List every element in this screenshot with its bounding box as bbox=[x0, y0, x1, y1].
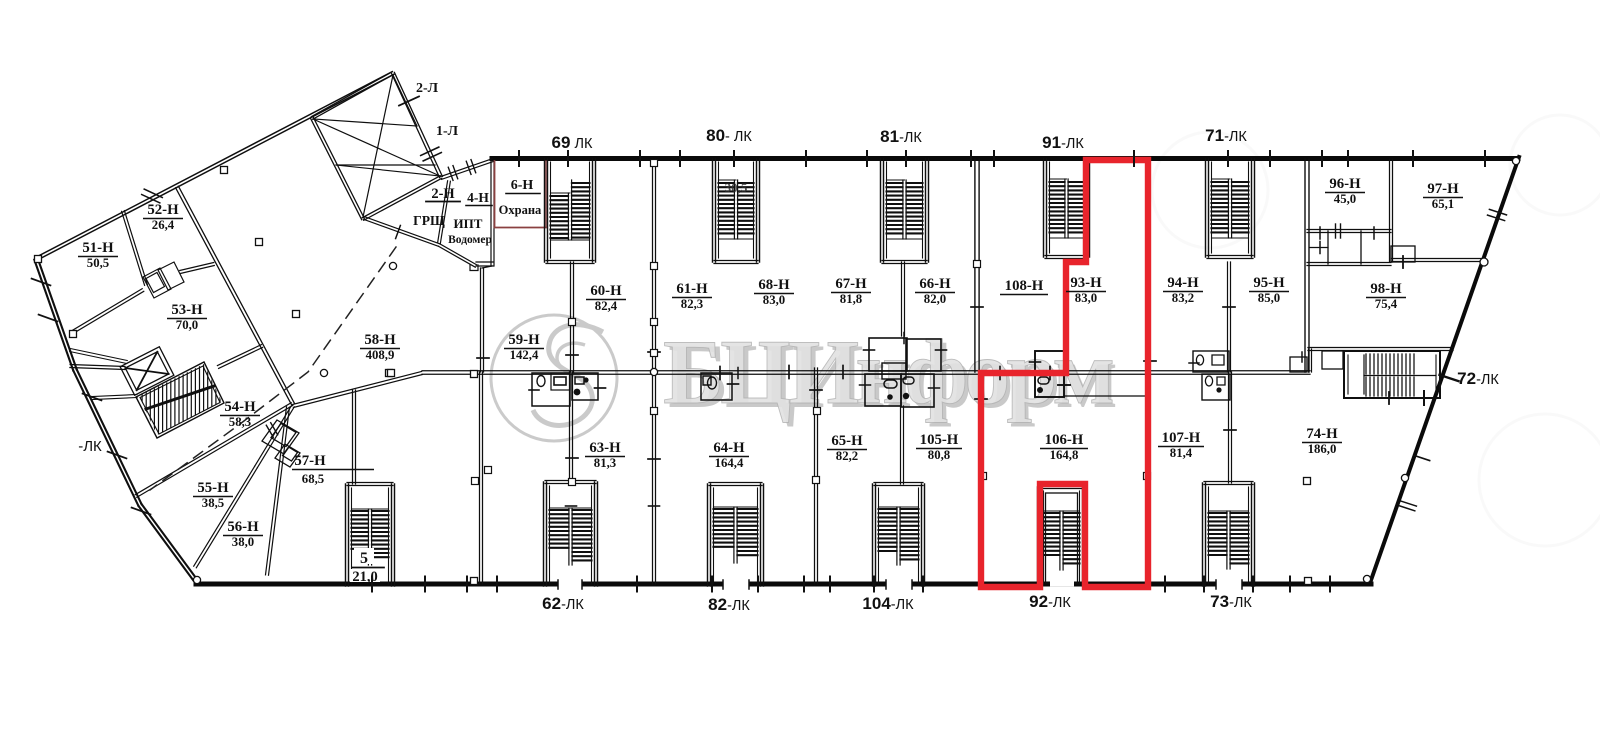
svg-text:52-Н: 52-Н bbox=[147, 202, 179, 218]
svg-text:68-Н: 68-Н bbox=[758, 277, 790, 293]
svg-text:ИПТ: ИПТ bbox=[454, 216, 483, 231]
svg-text:408,9: 408,9 bbox=[366, 348, 395, 362]
stair block 92-ЛК bbox=[1038, 487, 1041, 586]
wall between 51-Н 52-Н and 53-Н bbox=[70, 289, 144, 335]
walls connecting -ЛК cluster bbox=[70, 349, 128, 364]
svg-text:82-ЛК: 82-ЛК bbox=[708, 595, 750, 614]
stair 5 block bbox=[346, 484, 349, 586]
wall between 64-Н and 65-Н bbox=[815, 368, 818, 584]
wall between 56-Н and 57-Н bbox=[266, 407, 290, 575]
svg-text:186,0: 186,0 bbox=[1308, 442, 1337, 456]
toilet block for 107-Н bbox=[1202, 374, 1230, 400]
svg-text:67-Н: 67-Н bbox=[835, 276, 867, 292]
square tabs on walls bbox=[651, 160, 658, 167]
svg-text:58-Н: 58-Н bbox=[364, 332, 396, 348]
svg-text:70,0: 70,0 bbox=[176, 318, 198, 332]
room labels bbox=[78, 176, 1463, 549]
svg-text:164,8: 164,8 bbox=[1050, 448, 1079, 462]
ГРЩ room walls bbox=[441, 159, 494, 180]
toilet cluster for 65-Н 66-Н 67-Н bbox=[869, 338, 907, 371]
svg-text:97-Н: 97-Н bbox=[1427, 181, 1459, 197]
svg-text:81,4: 81,4 bbox=[1170, 446, 1193, 460]
ramp tick 2-Л bbox=[399, 96, 419, 105]
svg-text:2-Н: 2-Н bbox=[431, 186, 455, 202]
svg-text:82,2: 82,2 bbox=[836, 449, 858, 463]
svg-text:68,5: 68,5 bbox=[302, 472, 324, 486]
svg-text:164,4: 164,4 bbox=[715, 456, 744, 470]
svg-text:Водомер: Водомер bbox=[448, 234, 492, 246]
svg-text:51-Н: 51-Н bbox=[82, 240, 114, 256]
svg-text:66-Н: 66-Н bbox=[919, 276, 951, 292]
wall between 54-Н and 55-Н bbox=[135, 403, 293, 498]
96-Н east wall bbox=[1390, 159, 1393, 262]
toilet block for 95-Н bbox=[1290, 357, 1307, 372]
stair block 91-ЛК bbox=[1044, 159, 1047, 257]
stair block 80-ЛК bbox=[713, 159, 716, 262]
watermark circle and text БЦИнформ bbox=[491, 315, 617, 441]
svg-text:74-Н: 74-Н bbox=[1306, 426, 1338, 442]
ticks on top wall bbox=[518, 151, 520, 166]
svg-text:94-Н: 94-Н bbox=[1167, 275, 1199, 291]
toilet block for 64-Н bbox=[701, 373, 732, 400]
svg-text:80,8: 80,8 bbox=[928, 448, 950, 462]
svg-text:71-ЛК: 71-ЛК bbox=[1205, 126, 1247, 145]
ramp tick 1-Л bbox=[423, 153, 441, 161]
98-Н south wall bbox=[1308, 348, 1453, 351]
wall between 105-Н and 106-Н under red line bbox=[980, 373, 982, 584]
Охрана room walls 6-Н bbox=[495, 161, 547, 228]
left wing northwest exterior wall bbox=[35, 72, 393, 261]
svg-text:4-Н: 4-Н bbox=[467, 190, 489, 205]
svg-text:82,4: 82,4 bbox=[595, 299, 618, 313]
svg-text:57-Н: 57-Н bbox=[294, 453, 326, 469]
wall between 107-Н and 74-Н bbox=[1229, 372, 1232, 483]
svg-text:72-ЛК: 72-ЛК bbox=[1457, 369, 1499, 388]
svg-text:2-Л: 2-Л bbox=[416, 81, 439, 96]
svg-text:81,3: 81,3 bbox=[594, 456, 616, 470]
label 5 and area 21,0 bbox=[354, 548, 374, 564]
96-Н south wall and cells bbox=[1307, 230, 1391, 233]
svg-text:104-ЛК: 104-ЛК bbox=[862, 594, 914, 613]
svg-text:-ЛК: -ЛК bbox=[78, 438, 102, 455]
svg-text:83,2: 83,2 bbox=[1172, 291, 1194, 305]
door gaps in bottom wall at stair entrances bbox=[558, 581, 582, 587]
svg-text:60-Н: 60-Н bbox=[590, 283, 622, 299]
left wing west exterior wall bbox=[34, 258, 76, 370]
svg-text:21,0: 21,0 bbox=[352, 569, 377, 585]
svg-text:95-Н: 95-Н bbox=[1253, 275, 1285, 291]
wall between 53-Н and 54-Н bbox=[70, 365, 125, 370]
svg-text:26,4: 26,4 bbox=[152, 218, 175, 232]
stair block 81-ЛК bbox=[881, 159, 884, 262]
ГРЩ / ИПТ divider wall bbox=[438, 181, 451, 243]
external ramp structure with cross bracing bbox=[392, 72, 443, 177]
red highlighted suite outline 93-Н 106-Н 92-ЛК bbox=[981, 160, 1148, 587]
svg-text:83,0: 83,0 bbox=[1075, 291, 1097, 305]
svg-text:38,0: 38,0 bbox=[232, 535, 254, 549]
wall below stair 71 between 94-Н and 95-Н bbox=[1228, 262, 1231, 372]
97-Н south wall bbox=[1391, 259, 1481, 262]
svg-text:98-Н: 98-Н bbox=[1370, 281, 1402, 297]
svg-text:91-ЛК: 91-ЛК bbox=[1042, 133, 1084, 152]
svg-text:5: 5 bbox=[360, 550, 368, 567]
wall between 95-Н and right wing bbox=[1305, 159, 1309, 372]
svg-text:65-Н: 65-Н bbox=[831, 433, 863, 449]
svg-text:6-Н: 6-Н bbox=[511, 178, 534, 193]
stair block 62-ЛК bbox=[544, 482, 547, 586]
svg-text:30,5: 30,5 bbox=[725, 180, 748, 195]
svg-text:ГРЩ: ГРЩ bbox=[413, 213, 445, 228]
wall between 106-Н and 107-Н under red line bbox=[1146, 373, 1148, 584]
svg-text:61-Н: 61-Н bbox=[676, 281, 708, 297]
svg-text:81,8: 81,8 bbox=[840, 292, 862, 306]
wall below stair 81 between 67-Н and 66-Н bbox=[902, 262, 905, 336]
ИПТ east wall bbox=[491, 160, 494, 266]
small box east of cells bbox=[1391, 246, 1415, 262]
svg-text:38,5: 38,5 bbox=[202, 496, 224, 510]
svg-text:108-Н: 108-Н bbox=[1005, 278, 1044, 294]
svg-text:64-Н: 64-Н bbox=[713, 440, 745, 456]
wall between 51-Н and 52-Н bbox=[122, 211, 148, 286]
stair block 82-ЛК bbox=[708, 484, 711, 586]
svg-text:105-Н: 105-Н bbox=[920, 432, 959, 448]
wall between 60-Н and 61-Н bbox=[653, 159, 656, 372]
svg-text:50,5: 50,5 bbox=[87, 256, 109, 270]
toilet block 2 for 63-Н bbox=[572, 373, 598, 400]
ticks on right slanted wall bbox=[1489, 209, 1506, 215]
svg-text:80- ЛК: 80- ЛК bbox=[706, 126, 752, 145]
stair block 73-ЛК bbox=[1203, 483, 1206, 586]
steep wall between 52-Н 53-Н and 58-Н bbox=[176, 186, 295, 405]
wall between 66-Н and 108-Н bbox=[975, 159, 979, 372]
tick over red top segment bbox=[1133, 150, 1135, 167]
stair block 71-ЛК bbox=[1206, 159, 1209, 257]
column markers squares bbox=[35, 256, 42, 263]
svg-text:85,0: 85,0 bbox=[1258, 291, 1280, 305]
svg-text:59-Н: 59-Н bbox=[508, 332, 540, 348]
right wing stub wall bbox=[1309, 349, 1312, 372]
wall between 63-Н and 64-Н bbox=[653, 372, 656, 584]
svg-text:142,4: 142,4 bbox=[510, 348, 539, 362]
corridor wall horizontal bbox=[422, 371, 1310, 374]
svg-text:82,3: 82,3 bbox=[681, 297, 703, 311]
stair block 69-ЛК bbox=[545, 159, 548, 262]
wall west of 59-Н bbox=[481, 268, 484, 372]
top exterior wall bbox=[492, 156, 1518, 161]
svg-text:107-Н: 107-Н bbox=[1162, 430, 1201, 446]
svg-text:75,4: 75,4 bbox=[1375, 297, 1398, 311]
ticks on left exterior wall bbox=[32, 279, 51, 286]
dashed line in 58-Н bbox=[150, 247, 396, 490]
stair block 104-ЛК bbox=[873, 484, 876, 586]
column markers circles bbox=[389, 262, 396, 269]
svg-text:82,0: 82,0 bbox=[924, 292, 946, 306]
wall between 65-Н and 105-Н toilets to stair 104 bbox=[901, 406, 904, 484]
wall between 59-Н and 60-Н below stair 69 bbox=[571, 262, 574, 372]
svg-text:83,0: 83,0 bbox=[763, 293, 785, 307]
svg-text:Охрана: Охрана bbox=[499, 203, 542, 217]
bottom exterior wall bbox=[196, 582, 1371, 587]
svg-text:45,0: 45,0 bbox=[1334, 192, 1356, 206]
svg-text:73-ЛК: 73-ЛК bbox=[1210, 592, 1252, 611]
svg-text:53-Н: 53-Н bbox=[171, 302, 203, 318]
elevator box with cross bracing -ЛК bbox=[120, 347, 174, 395]
wall from 57-Н area to stair 5 bbox=[353, 390, 356, 484]
svg-text:106-Н: 106-Н bbox=[1045, 432, 1084, 448]
stair 72-ЛК block bbox=[1344, 351, 1440, 398]
svg-text:65,1: 65,1 bbox=[1432, 197, 1454, 211]
svg-text:69 ЛК: 69 ЛК bbox=[552, 133, 593, 152]
shaft box on wall junction bbox=[143, 262, 184, 298]
toilet block for 93-Н bbox=[1035, 351, 1064, 397]
diamond shaft at junction bbox=[262, 420, 300, 467]
wall west of 63-Н bbox=[480, 372, 483, 584]
svg-text:92-ЛК: 92-ЛК bbox=[1029, 592, 1071, 611]
ticks on corridor and walls bbox=[477, 357, 489, 359]
svg-text:58,3: 58,3 bbox=[229, 415, 251, 429]
ticks on bottom wall bbox=[371, 577, 373, 592]
svg-text:54-Н: 54-Н bbox=[224, 399, 256, 415]
wall from junction to corridor 54-Н 57-Н bbox=[293, 372, 423, 408]
right exterior slanted wall bbox=[1370, 157, 1519, 583]
svg-text:93-Н: 93-Н bbox=[1070, 275, 1102, 291]
wall from corridor to stair 62 bbox=[570, 372, 573, 483]
wall between 55-Н and 56-Н bbox=[255, 405, 295, 468]
svg-text:96-Н: 96-Н bbox=[1329, 176, 1361, 192]
secondary corridor line bbox=[1064, 395, 1148, 397]
small cell west of stair 72 bbox=[1322, 351, 1343, 369]
toilet block for 94-Н bbox=[1193, 351, 1229, 372]
svg-text:81-ЛК: 81-ЛК bbox=[880, 127, 922, 146]
svg-text:62-ЛК: 62-ЛК bbox=[542, 594, 584, 613]
svg-text:55-Н: 55-Н bbox=[197, 480, 229, 496]
svg-text:1-Л: 1-Л bbox=[436, 124, 459, 139]
svg-text:56-Н: 56-Н bbox=[227, 519, 259, 535]
toilet block for 63-Н bbox=[532, 373, 570, 406]
svg-text:63-Н: 63-Н bbox=[589, 440, 621, 456]
